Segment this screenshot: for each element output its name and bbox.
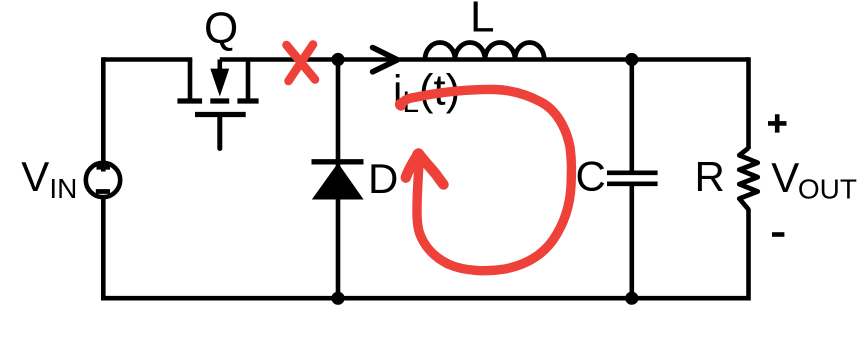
svg-text:R: R <box>695 153 725 200</box>
svg-text:VIN: VIN <box>21 153 77 204</box>
wire: left vertical from source circle down to bottom-left corner <box>101 196 106 301</box>
gate bar <box>195 112 246 117</box>
svg-text:L: L <box>470 0 494 41</box>
channel segment left <box>177 98 202 103</box>
gate lead <box>217 115 222 149</box>
svg-text:D: D <box>368 155 398 202</box>
channel segment right <box>237 98 258 103</box>
drain arrow (filled triangle pointing down) <box>210 69 229 97</box>
source V_IN circle <box>86 163 120 197</box>
svg-text:C: C <box>576 153 606 200</box>
drain stem <box>218 60 223 73</box>
source lead vertical <box>188 60 193 102</box>
diode D cathode bar <box>312 159 364 164</box>
wire: top wire from transistor drain to top-right corner <box>220 57 749 62</box>
red hand-drawn current loop <box>401 89 571 270</box>
node: diode bottom junction dot <box>331 292 344 305</box>
resistor R zigzag <box>739 148 757 210</box>
source V_IN plus terminal <box>97 160 111 172</box>
wire: capacitor branch upper segment <box>629 60 634 171</box>
wire: right branch vertical lower segment <box>746 209 751 301</box>
wire: top-left wire from left vertical to transistor source corner <box>103 57 192 62</box>
red loop arrowhead <box>406 154 444 185</box>
diode D anode triangle <box>312 163 364 200</box>
capacitor C plates <box>607 173 658 184</box>
node A: switch node junction dot (top) <box>331 53 344 66</box>
red X annotation over switch wire <box>287 45 316 82</box>
node: capacitor bottom junction dot <box>625 292 638 305</box>
label - (output polarity) <box>772 232 784 237</box>
red loop arrowhead tip blob <box>412 149 424 161</box>
inductor L coils <box>425 42 544 59</box>
wire: switch-node vertical through diode <box>336 60 341 299</box>
right lead vertical <box>246 60 251 102</box>
node: capacitor top junction dot <box>625 53 638 66</box>
label + (output polarity) <box>768 114 787 132</box>
wire: capacitor branch lower segment <box>629 186 634 298</box>
red pen start blob <box>395 99 406 110</box>
svg-text:Q: Q <box>204 4 238 53</box>
transistor Q (MOSFET) <box>177 60 258 149</box>
current direction arrowhead on wire <box>373 48 398 72</box>
wire: left vertical from top corner down to source circle <box>101 57 106 166</box>
source V_IN minus terminal <box>96 189 110 194</box>
wire: right branch vertical upper segment <box>746 57 751 149</box>
svg-text:VOUT: VOUT <box>771 154 857 205</box>
wire: bottom wire <box>103 296 748 301</box>
channel segment middle <box>210 98 229 103</box>
